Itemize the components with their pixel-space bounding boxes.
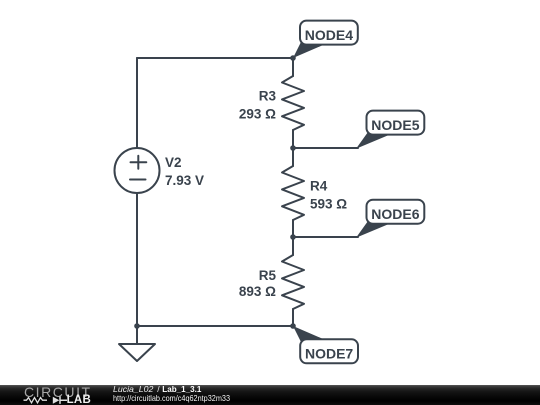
svg-text:LAB: LAB <box>67 393 92 404</box>
wire node5 stub <box>293 147 358 149</box>
svg-text:V2: V2 <box>165 155 182 170</box>
node flag NODE6 <box>356 200 424 238</box>
svg-text:Lab_1_3.1: Lab_1_3.1 <box>162 385 201 394</box>
logo resistor zigzag <box>24 397 48 402</box>
node flag NODE4 <box>293 21 358 58</box>
wire left vertical upper <box>136 58 138 148</box>
wire top horizontal (node4 rail) <box>137 57 293 59</box>
svg-text:NODE5: NODE5 <box>371 117 419 133</box>
wire R5 to node7 <box>292 309 294 326</box>
node dot at ground junction <box>134 323 140 329</box>
V2 minus sign <box>130 179 146 181</box>
svg-text:NODE7: NODE7 <box>305 346 353 362</box>
resistor R3 <box>282 76 304 130</box>
V2 plus sign <box>131 156 147 169</box>
wire R3 to R4 <box>292 130 294 166</box>
svg-text:893 Ω: 893 Ω <box>239 284 276 299</box>
node dot at node6 junction <box>290 234 296 240</box>
svg-text:R3: R3 <box>259 89 277 104</box>
footer bar <box>0 385 540 405</box>
svg-text:http://circuitlab.com/c4q62ntp: http://circuitlab.com/c4q62ntp32m33 <box>113 393 230 402</box>
wire node6 stub <box>293 236 358 238</box>
node flag NODE5 <box>356 111 424 149</box>
wire left vertical lower <box>136 193 138 326</box>
svg-text:NODE4: NODE4 <box>305 27 353 43</box>
node flag NODE7 <box>293 326 358 363</box>
svg-text:NODE6: NODE6 <box>371 206 419 222</box>
ground symbol <box>119 344 155 361</box>
svg-text:/: / <box>157 385 160 394</box>
resistor R4 <box>282 166 304 220</box>
wire R4 to R5 <box>292 220 294 255</box>
node dot at node7 junction <box>290 323 296 329</box>
wire right vertical stub node4 to R3 <box>292 58 294 76</box>
svg-text:R4: R4 <box>310 179 328 194</box>
node dot at node5 junction <box>290 145 296 151</box>
svg-text:R5: R5 <box>259 268 277 283</box>
wire bottom horizontal <box>137 325 293 327</box>
voltage source V2 circle <box>115 148 160 193</box>
svg-text:293 Ω: 293 Ω <box>239 106 276 121</box>
svg-text:Lucia_L02: Lucia_L02 <box>113 385 154 394</box>
ground stub wire <box>136 326 138 344</box>
svg-text:7.93 V: 7.93 V <box>165 173 204 188</box>
node dot at node4 junction <box>290 55 296 61</box>
svg-text:593 Ω: 593 Ω <box>310 196 347 211</box>
logo diode <box>53 396 60 403</box>
resistor R5 <box>282 255 304 309</box>
